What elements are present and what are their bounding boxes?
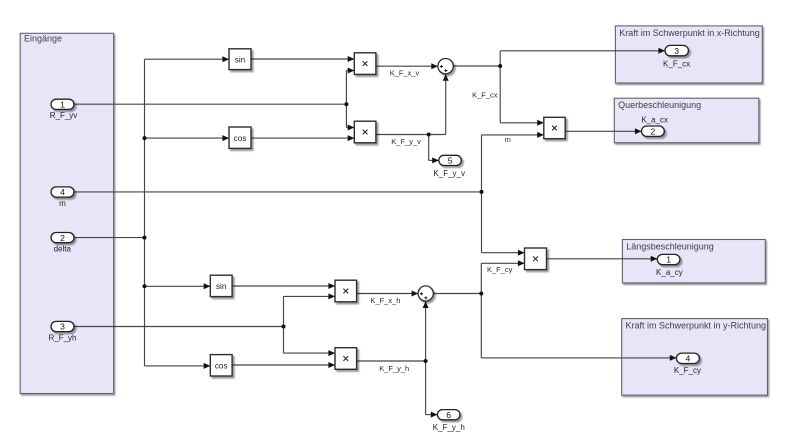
label K_F_y_v <box>391 137 421 146</box>
svg-text:K_F_x_h: K_F_x_h <box>370 296 400 305</box>
svg-text:1: 1 <box>666 255 671 265</box>
product block mult4 <box>335 348 357 370</box>
wire cos1 to mult2 <box>251 135 354 141</box>
trig block sin1 <box>229 49 251 70</box>
wire K_F_cx to mult6 <box>500 120 544 126</box>
svg-text:K_F_y_v: K_F_y_v <box>433 169 465 178</box>
subsystem area Kraft im Schwerpunkt in x-Richtung <box>615 26 762 83</box>
label K_F_x_h <box>370 296 400 305</box>
svg-text:cos: cos <box>234 134 247 143</box>
svg-text:R_F_yv: R_F_yv <box>50 111 78 120</box>
label K_F_y_h <box>379 364 409 373</box>
product block mult6 <box>544 117 565 138</box>
junction delta-cos1 <box>143 136 147 140</box>
junction delta-sin2 <box>143 284 147 288</box>
wire K_a_cy <box>547 256 658 262</box>
wire m to mult5 <box>482 250 525 256</box>
sum block sum1 <box>438 58 453 73</box>
junction R_F_yv <box>344 102 348 106</box>
wire m to mult6 <box>482 132 544 138</box>
wire R_F_yv to mult1 <box>346 68 354 74</box>
svg-text:4: 4 <box>60 187 65 197</box>
wire bus to cos1 <box>145 135 230 141</box>
wire R_F_yh to mult4 <box>284 350 336 356</box>
junction K_F_y_v <box>427 133 431 137</box>
inport 4 m <box>51 187 74 208</box>
svg-text:Längsbeschleunigung: Längsbeschleunigung <box>626 242 714 252</box>
svg-text:K_a_cy: K_a_cy <box>656 268 683 277</box>
wire K_F_cx out <box>453 65 500 67</box>
svg-text:cos: cos <box>215 361 228 370</box>
svg-text:Eingänge: Eingänge <box>24 34 62 44</box>
wire K_F_cy to out4 <box>481 355 676 361</box>
wire K_F_y_v up to sum1 <box>443 74 449 134</box>
wire R_F_yh horizontal <box>75 326 284 328</box>
svg-text:m: m <box>59 199 66 208</box>
wire K_F_cy vertical <box>480 263 482 358</box>
wire K_F_cx to out3 <box>500 48 665 54</box>
svg-text:K_a_cx: K_a_cx <box>641 116 668 125</box>
product block mult1 <box>354 53 376 75</box>
wire K_F_x_h <box>357 291 419 297</box>
wire K_F_cy out <box>433 293 481 295</box>
junction K_F_cy <box>479 292 483 296</box>
wire K_F_y_v horizontal <box>376 134 446 136</box>
junction K_F_cx <box>498 64 502 68</box>
svg-text:3: 3 <box>60 322 65 332</box>
svg-text:2: 2 <box>651 126 656 136</box>
outport 6 K_F_y_h <box>433 410 465 433</box>
wire delta to bus <box>75 237 145 239</box>
svg-text:R_F_yh: R_F_yh <box>48 333 76 342</box>
wire bus to cos2 <box>145 363 211 369</box>
junction delta-in <box>143 236 147 240</box>
svg-text:5: 5 <box>448 156 453 166</box>
junction R_F_yh <box>282 325 286 329</box>
svg-text:K_F_y_h: K_F_y_h <box>379 364 409 373</box>
wire cos2 to mult4 <box>232 362 335 368</box>
product block mult2 <box>354 121 376 143</box>
wire R_F_yv branch vertical <box>345 71 347 128</box>
trig block sin2 <box>210 275 232 296</box>
svg-text:sin: sin <box>216 282 227 291</box>
product block mult3 <box>335 280 357 302</box>
svg-text:K_F_y_v: K_F_y_v <box>391 137 421 146</box>
svg-text:sin: sin <box>235 55 246 64</box>
wire K_a_cx <box>565 128 641 134</box>
svg-text:4: 4 <box>686 354 691 364</box>
wire K_F_y_h up to sum2 <box>423 301 429 361</box>
wire K_F_x_v <box>376 63 438 69</box>
wire K_F_y_h horizontal <box>357 360 426 362</box>
svg-text:1: 1 <box>60 100 65 110</box>
wire sin2 to mult3 <box>232 283 335 289</box>
product block mult5 <box>525 248 547 270</box>
svg-text:K_F_cy: K_F_cy <box>487 265 513 274</box>
junction K_F_y_h <box>424 359 428 363</box>
wire R_F_yh branch vertical <box>283 296 285 353</box>
label K_F_cy <box>487 265 513 274</box>
label K_F_x_v <box>390 69 420 78</box>
subsystem area Eingaenge <box>20 33 113 393</box>
svg-text:Kraft im Schwerpunkt in x-Rich: Kraft im Schwerpunkt in x-Richtung <box>619 28 760 38</box>
junction m <box>480 190 484 194</box>
outport 2 K_a_cx <box>641 116 668 137</box>
wire K_F_cx vertical <box>499 51 501 123</box>
wire m vertical <box>481 135 483 253</box>
svg-text:2: 2 <box>60 233 65 243</box>
svg-text:delta: delta <box>54 245 72 254</box>
wire K_F_y_v down to out5 <box>429 135 439 164</box>
wire delta vertical bus <box>144 59 146 366</box>
trig block cos1 <box>229 127 251 148</box>
label m <box>505 135 511 144</box>
svg-text:m: m <box>505 135 511 144</box>
svg-text:Querbeschleunigung: Querbeschleunigung <box>618 100 701 110</box>
wire K_F_y_h down to out6 <box>426 361 438 418</box>
subsystem area Querbeschleunigung <box>614 98 759 143</box>
wire K_F_cy to mult5 <box>481 260 524 266</box>
wire sin1 to mult1 <box>251 56 354 62</box>
outport 3 K_F_cx <box>663 45 690 68</box>
svg-text:K_F_y_h: K_F_y_h <box>433 423 465 432</box>
outport 1 K_a_cy <box>656 254 683 276</box>
inport 3 R_F_yh <box>48 321 76 342</box>
label K_F_cx <box>472 91 498 100</box>
outport 4 K_F_cy <box>674 353 701 375</box>
wire R_F_yh to mult3 <box>284 293 336 299</box>
sum block sum2 <box>418 286 433 301</box>
subsystem area Laengsbeschleunigung <box>622 240 765 283</box>
wire R_F_yv to mult2 <box>346 125 354 131</box>
trig block cos2 <box>210 355 232 376</box>
svg-text:K_F_cx: K_F_cx <box>663 59 690 68</box>
svg-text:3: 3 <box>674 46 679 56</box>
subsystem area Kraft im Schwerpunkt in y-Richtung <box>622 319 768 396</box>
outport 5 K_F_y_v <box>433 155 465 178</box>
svg-text:Kraft im Schwerpunkt in y-Rich: Kraft im Schwerpunkt in y-Richtung <box>626 321 767 331</box>
wire bus to sin2 <box>145 283 211 289</box>
svg-text:K_F_cy: K_F_cy <box>674 366 701 375</box>
wire R_F_yv horizontal <box>75 103 347 105</box>
svg-text:6: 6 <box>446 410 451 420</box>
wire bus to sin1 <box>145 56 230 62</box>
wire m horizontal <box>75 191 482 193</box>
svg-text:K_F_x_v: K_F_x_v <box>390 69 420 78</box>
svg-text:K_F_cx: K_F_cx <box>472 91 498 100</box>
inport 2 delta <box>51 233 74 254</box>
inport 1 R_F_yv <box>50 99 78 120</box>
